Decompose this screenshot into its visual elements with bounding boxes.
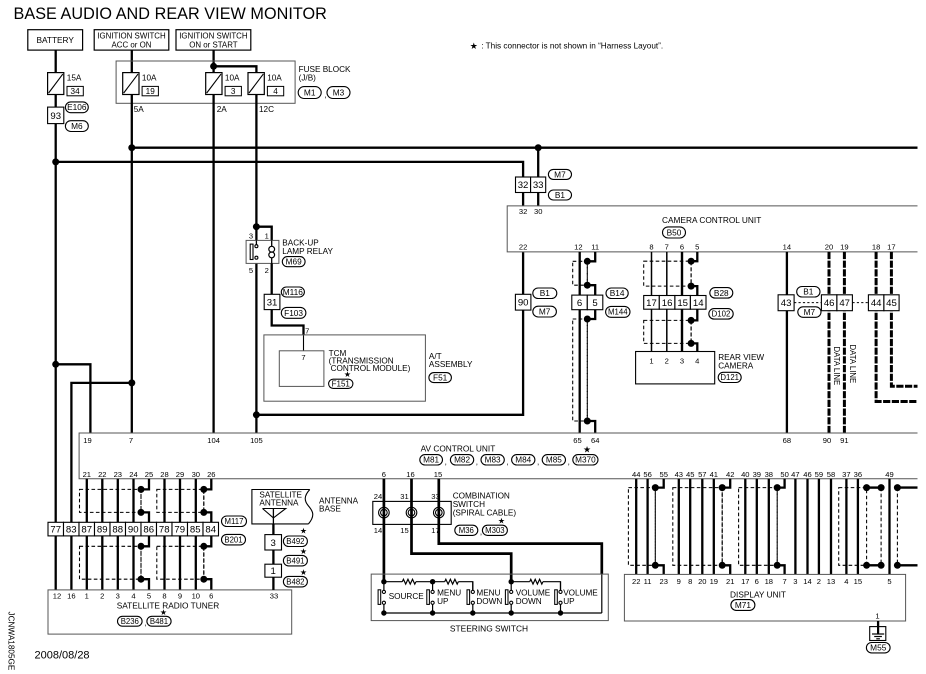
svg-text:M7: M7 — [804, 307, 816, 317]
spiral cable symbol 1 — [379, 507, 390, 518]
resistor 1 — [402, 579, 416, 584]
svg-text:LAMP RELAY: LAMP RELAY — [282, 247, 333, 256]
wire camera pin 5 to shield drain — [691, 252, 697, 261]
shield box 28-30 upper — [157, 489, 204, 512]
shield drain dashed 25 lower — [140, 546, 142, 579]
svg-text:7: 7 — [129, 436, 133, 445]
svg-text:65: 65 — [573, 436, 581, 445]
wire connector 31 to TCM pin 7 — [272, 310, 304, 335]
svg-text:6: 6 — [755, 577, 759, 586]
wire AV drain pin to shield at x=655.3 — [655, 479, 663, 488]
shield drain dashed 26 upper — [203, 489, 205, 512]
ground symbol M55 — [870, 627, 886, 641]
wire bus dot down to connector 33 — [537, 148, 539, 177]
wire drain to connector cell 5 — [587, 285, 595, 295]
svg-text:,: , — [476, 458, 478, 467]
svg-text:F51: F51 — [433, 373, 448, 383]
svg-text:DOWN: DOWN — [476, 597, 502, 606]
svg-text:7: 7 — [782, 577, 786, 586]
svg-text:3: 3 — [249, 232, 253, 241]
wire cell 14 to lower drain — [691, 309, 697, 320]
connector cells 46 47 — [821, 295, 837, 311]
svg-text:5A: 5A — [134, 105, 145, 114]
connector M7 oval at 90 — [533, 306, 557, 317]
svg-text:8: 8 — [688, 577, 692, 586]
satellite antenna box — [252, 490, 313, 524]
svg-text:STEERING SWITCH: STEERING SWITCH — [450, 623, 528, 633]
svg-text:B14: B14 — [610, 288, 625, 298]
svg-text:15: 15 — [434, 470, 442, 479]
svg-text:18: 18 — [765, 577, 773, 586]
data line wire camera pin 17 to right edge — [891, 252, 917, 386]
svg-text:M1: M1 — [304, 87, 316, 97]
svg-text:5: 5 — [249, 266, 253, 275]
svg-text:17: 17 — [646, 298, 657, 309]
svg-text:30: 30 — [192, 470, 200, 479]
connector cells 44 45 — [868, 295, 884, 311]
svg-text:20: 20 — [825, 243, 833, 252]
svg-text:33: 33 — [270, 592, 278, 601]
connector D102 oval — [709, 309, 733, 320]
rail volume down to volume up — [511, 581, 530, 583]
wire branch to relay coil pin 1 — [256, 227, 271, 241]
connector B1 oval at 90 — [533, 288, 557, 299]
svg-text:B236: B236 — [121, 617, 139, 626]
svg-text:DOWN: DOWN — [516, 597, 542, 606]
shield drain dashed 49 left — [880, 488, 882, 566]
svg-text:BATTERY: BATTERY — [36, 35, 74, 45]
shield box upper 8-6 — [644, 261, 691, 286]
svg-text:SATELLITE RADIO TUNER: SATELLITE RADIO TUNER — [117, 600, 220, 610]
svg-text:39: 39 — [753, 470, 761, 479]
TCM box — [279, 351, 324, 387]
svg-text:32: 32 — [518, 180, 529, 191]
AV control unit box — [79, 433, 917, 479]
svg-text:21: 21 — [83, 470, 91, 479]
shield drain dashed upper B28 — [690, 261, 692, 286]
svg-text:23: 23 — [114, 470, 122, 479]
svg-text:55: 55 — [659, 470, 667, 479]
svg-text:93: 93 — [50, 111, 61, 122]
fuse 15A battery — [48, 73, 64, 95]
svg-text:45: 45 — [686, 470, 694, 479]
wire relay pin 2 to connector 31 — [271, 263, 273, 294]
connector B482 oval — [283, 576, 307, 587]
svg-text:ANTENNA: ANTENNA — [259, 498, 299, 507]
svg-text:4: 4 — [844, 577, 848, 586]
svg-text:14: 14 — [693, 298, 704, 309]
shield box lower 12/11 — [573, 319, 588, 421]
wire ON/START to fuse 10A-3 — [212, 50, 214, 73]
A/T assembly box — [264, 335, 426, 401]
svg-text:M71: M71 — [735, 600, 752, 610]
svg-text:19: 19 — [840, 243, 848, 252]
svg-text:5: 5 — [147, 592, 151, 601]
wire cell 86 to lower drain — [141, 536, 149, 546]
svg-text:6: 6 — [382, 470, 386, 479]
svg-text:17: 17 — [741, 577, 749, 586]
svg-text:2A: 2A — [217, 105, 228, 114]
shield drain dashed lower — [586, 319, 588, 421]
wires AV to display unit straight — [635, 479, 637, 575]
svg-text:12C: 12C — [259, 105, 274, 114]
svg-text:FUSE BLOCK: FUSE BLOCK — [299, 65, 351, 74]
svg-text:,: , — [480, 528, 482, 537]
connector B492 oval — [283, 536, 307, 547]
svg-text:2: 2 — [817, 577, 821, 586]
svg-text:M117: M117 — [225, 517, 244, 526]
svg-text:4: 4 — [695, 357, 699, 366]
svg-text:JCNWA1805GE: JCNWA1805GE — [7, 612, 16, 671]
svg-text:10A: 10A — [225, 73, 240, 82]
junction dot battery branch to AV pin 19 — [52, 361, 59, 368]
connector F103 oval — [281, 307, 306, 318]
spiral cable symbol 2 — [406, 507, 417, 518]
svg-text:★: ★ — [300, 527, 307, 536]
wire AV pin 6 to spiral cable pin 24 — [383, 479, 386, 582]
wire battery down to junctions and satellite tuner pin 12 — [55, 124, 57, 590]
svg-text:9: 9 — [677, 577, 681, 586]
svg-text:3: 3 — [680, 357, 684, 366]
svg-text:14: 14 — [803, 577, 811, 586]
svg-text:15: 15 — [854, 577, 862, 586]
svg-text:M3: M3 — [333, 87, 345, 97]
connector B28 oval — [710, 288, 733, 299]
svg-text:46: 46 — [803, 470, 811, 479]
connector B14 oval — [606, 288, 628, 299]
svg-text:2008/08/28: 2008/08/28 — [35, 650, 90, 662]
connector cell 33 — [531, 177, 546, 193]
svg-text:6: 6 — [209, 592, 213, 601]
svg-text:88: 88 — [112, 525, 123, 536]
svg-text:43: 43 — [675, 470, 683, 479]
svg-text:6: 6 — [577, 298, 582, 309]
shield link wires top — [867, 486, 882, 488]
svg-text:B1: B1 — [555, 190, 566, 200]
junction dot ACC bus — [128, 144, 135, 151]
display unit box — [624, 574, 905, 621]
svg-text:,: , — [324, 90, 326, 100]
shield drain dashed 49 right — [896, 488, 898, 566]
svg-text:5: 5 — [887, 577, 891, 586]
wire cell 84 to lower drain — [204, 536, 212, 546]
svg-text:31: 31 — [267, 297, 278, 308]
wire connector 3 to connector 1 — [272, 550, 274, 564]
wires AV pins 21-24 to tuner pins 1-4 — [86, 479, 88, 590]
svg-text:3: 3 — [116, 592, 120, 601]
intermediate connector strip cells 77-84 — [48, 522, 64, 536]
connector M55 oval — [866, 643, 890, 653]
svg-text:,: , — [506, 458, 508, 467]
AV connector ovals M81-M370 — [420, 455, 443, 465]
svg-text:11: 11 — [644, 577, 652, 586]
svg-text:ACC or ON: ACC or ON — [112, 40, 152, 49]
svg-text:8: 8 — [649, 243, 653, 252]
svg-text:CAMERA: CAMERA — [718, 361, 754, 370]
shield box 43-41 — [673, 488, 722, 566]
data line wire camera pin 19 to AV pin 91 — [843, 252, 846, 433]
svg-text:105: 105 — [250, 436, 263, 445]
wire cell 5 to lower drain — [587, 310, 595, 319]
svg-text:12: 12 — [574, 243, 582, 252]
wire drain to cell 86 — [141, 512, 149, 522]
wire drain to connector cell 14 — [691, 286, 697, 295]
shield box 21-24 upper — [80, 489, 142, 512]
wire AV drain pin to shield at x=777.2 — [777, 479, 784, 488]
svg-text:3: 3 — [793, 577, 797, 586]
svg-text:32: 32 — [519, 207, 527, 216]
svg-text:B481: B481 — [150, 617, 168, 626]
svg-text:(J/B): (J/B) — [299, 74, 317, 83]
svg-text:29: 29 — [176, 470, 184, 479]
svg-text:64: 64 — [591, 436, 599, 445]
svg-text:BASE: BASE — [319, 504, 341, 513]
svg-text:M7: M7 — [554, 169, 566, 179]
wire battery fuse to connector 93 — [55, 95, 57, 108]
svg-text:90: 90 — [823, 436, 831, 445]
svg-text:M84: M84 — [515, 456, 531, 465]
svg-text:26: 26 — [207, 470, 215, 479]
wire AV pin 15 to spiral cable pin 33 — [439, 479, 602, 574]
connector B236 oval — [118, 616, 143, 626]
svg-text:M370: M370 — [575, 456, 596, 465]
wire camera pin 7 to rear camera pin 2 — [666, 252, 668, 352]
svg-text:M82: M82 — [454, 456, 470, 465]
connector M117 oval — [222, 516, 247, 527]
svg-text:22: 22 — [632, 577, 640, 586]
svg-text:19: 19 — [83, 436, 91, 445]
wire AV drain pin to shield at x=722.2 — [722, 479, 730, 488]
svg-text:104: 104 — [207, 436, 220, 445]
relay contact bar — [255, 240, 257, 244]
svg-text:13: 13 — [827, 577, 835, 586]
svg-text:M36: M36 — [459, 526, 474, 535]
svg-text:★: ★ — [160, 608, 167, 617]
svg-text:90: 90 — [518, 298, 529, 309]
svg-text:M303: M303 — [485, 526, 505, 535]
svg-text:33: 33 — [431, 492, 439, 501]
svg-text:19: 19 — [146, 87, 156, 96]
shield box lower 8-6 — [644, 320, 691, 343]
connector B1 oval at 43 — [797, 287, 820, 298]
svg-text:11: 11 — [591, 243, 599, 252]
svg-text:22: 22 — [98, 470, 106, 479]
svg-text:24: 24 — [374, 492, 382, 501]
shield box 44/56 — [628, 488, 655, 566]
svg-text:AV CONTROL UNIT: AV CONTROL UNIT — [421, 443, 496, 453]
svg-text:1: 1 — [271, 566, 276, 577]
svg-text:M7: M7 — [539, 307, 551, 317]
connector box 1 antenna — [265, 564, 282, 577]
svg-text:VOLUME: VOLUME — [516, 589, 551, 598]
connector M3 — [327, 87, 350, 99]
svg-text:,: , — [144, 618, 146, 627]
svg-text:M81: M81 — [423, 456, 439, 465]
svg-text:BASE AUDIO AND REAR VIEW MONIT: BASE AUDIO AND REAR VIEW MONITOR — [14, 5, 327, 23]
wire ACC 5A down to AV pin 7 — [131, 95, 133, 434]
junction dot fuse block feed — [210, 63, 217, 70]
connector E106 oval — [65, 102, 88, 113]
junction dot bus to connector 33 — [535, 144, 542, 151]
svg-text:,: , — [537, 458, 539, 467]
svg-text:VOLUME: VOLUME — [563, 589, 598, 598]
svg-text:58: 58 — [827, 470, 835, 479]
svg-text:M69: M69 — [286, 257, 303, 267]
connector F51 oval — [429, 373, 452, 383]
svg-text:UP: UP — [437, 597, 449, 606]
connector M6 oval — [65, 121, 88, 132]
svg-text:16: 16 — [67, 592, 75, 601]
svg-text:85: 85 — [190, 525, 201, 536]
svg-text:B1: B1 — [540, 288, 551, 298]
svg-text:1: 1 — [649, 357, 653, 366]
svg-text:B492: B492 — [286, 537, 304, 546]
resistor 3 — [530, 579, 543, 584]
svg-text:90: 90 — [128, 525, 139, 536]
svg-text:12: 12 — [53, 592, 61, 601]
svg-text:79: 79 — [174, 525, 185, 536]
svg-text:15A: 15A — [67, 73, 82, 82]
connector cell 32 — [516, 177, 531, 193]
shield drain dashed lower B28 — [690, 320, 692, 343]
svg-text:★: ★ — [300, 547, 307, 556]
svg-text:30: 30 — [534, 207, 542, 216]
svg-text:2: 2 — [100, 592, 104, 601]
ignition switch ON/START box — [176, 30, 251, 50]
wire camera pin 8 to rear camera pin 1 — [651, 252, 653, 352]
wire drain to tuner pin 5 — [141, 579, 149, 590]
wire AV pin 25 to shield drain — [141, 479, 149, 490]
svg-text:83: 83 — [66, 525, 77, 536]
steering switch box — [371, 574, 608, 621]
svg-text:2: 2 — [665, 357, 669, 366]
svg-text:3: 3 — [271, 538, 276, 549]
wire antenna to connector 3 — [272, 524, 274, 535]
svg-text:20: 20 — [698, 577, 706, 586]
back-up lamp relay box — [246, 240, 279, 263]
wire branch to satellite tuner pin 16 — [71, 383, 131, 590]
wire camera pin 11 to shield drain — [587, 252, 595, 261]
wire camera pin 12 to AV pin 65 — [579, 252, 581, 433]
svg-text:22: 22 — [519, 243, 527, 252]
svg-text:7: 7 — [301, 353, 305, 362]
svg-text:DISPLAY UNIT: DISPLAY UNIT — [730, 589, 786, 599]
svg-text:19: 19 — [710, 577, 718, 586]
dotted link 43 to 46 — [794, 302, 821, 304]
connector cell 5 — [587, 295, 603, 310]
wires AV pins 28-30 to tuner pins 8-10 — [163, 479, 165, 590]
svg-text:14: 14 — [374, 526, 382, 535]
svg-text:CONTROL MODULE): CONTROL MODULE) — [331, 364, 411, 373]
svg-text:★: ★ — [300, 568, 307, 577]
connector M144 oval — [606, 306, 630, 317]
svg-text:16: 16 — [406, 470, 414, 479]
svg-text:49: 49 — [885, 470, 893, 479]
wire branch to AV pin 19 — [56, 364, 91, 433]
svg-text:87: 87 — [81, 525, 92, 536]
resistor 2 — [445, 579, 459, 584]
svg-text:46: 46 — [824, 298, 835, 309]
switch VOLUME UP — [560, 582, 562, 591]
svg-text:MENU: MENU — [476, 589, 500, 598]
svg-text:B1: B1 — [803, 287, 814, 297]
svg-text:IGNITION SWITCH: IGNITION SWITCH — [97, 32, 166, 41]
svg-text:★: ★ — [498, 516, 505, 525]
shield box 37/36 — [839, 488, 867, 566]
data line wire camera pin 18 to right edge — [876, 252, 917, 402]
branch wire to fuse 10A-4 — [214, 66, 257, 72]
antenna symbol — [263, 509, 286, 518]
svg-text:M144: M144 — [608, 308, 628, 317]
wire AV pin 26 to shield drain — [204, 479, 212, 490]
junction dot ACC branch to tuner pin 16 — [128, 379, 135, 386]
connector B1 oval — [548, 190, 571, 200]
fuse 10A #3 — [206, 73, 222, 95]
fuse 10A #19 — [123, 73, 139, 95]
wire 2A down to AV pin 104 — [212, 95, 214, 434]
connector box 3 antenna — [265, 535, 282, 550]
svg-text:F103: F103 — [284, 308, 303, 318]
svg-text:ASSEMBLY: ASSEMBLY — [429, 360, 473, 369]
connector B481 oval — [147, 616, 171, 626]
dotted link 47 to 44 — [852, 302, 868, 304]
wire drain to AV pin 64 — [587, 421, 595, 433]
bottom rail — [384, 612, 602, 614]
svg-text:50: 50 — [780, 470, 788, 479]
connector M1 — [298, 87, 321, 99]
connector M71 oval — [731, 600, 755, 611]
svg-text:14: 14 — [783, 243, 791, 252]
svg-text:38: 38 — [765, 470, 773, 479]
svg-text:37: 37 — [842, 470, 850, 479]
switch VOLUME DOWN — [510, 582, 512, 591]
svg-text:15: 15 — [677, 298, 688, 309]
svg-text:SOURCE: SOURCE — [389, 592, 425, 601]
connector M7 oval at 43 — [798, 307, 821, 318]
svg-text:SWITCH: SWITCH — [453, 500, 485, 509]
svg-text:23: 23 — [659, 577, 667, 586]
shield link wires bottom — [867, 564, 882, 566]
svg-text:59: 59 — [815, 470, 823, 479]
svg-text:91: 91 — [840, 436, 848, 445]
connector box 31 — [264, 294, 280, 309]
svg-text:15: 15 — [400, 526, 408, 535]
svg-text:3: 3 — [231, 87, 236, 96]
bus battery wire to connector 32 — [56, 162, 523, 177]
shield box 28-30 lower — [157, 546, 204, 579]
svg-text:: This connector is not shown: : This connector is not shown in “Harnes… — [479, 42, 663, 51]
spiral cable symbol 3 — [434, 507, 445, 518]
wire drain to tuner pin 6 — [204, 579, 212, 590]
svg-text:CAMERA CONTROL UNIT: CAMERA CONTROL UNIT — [662, 215, 761, 225]
satellite radio tuner box — [48, 590, 292, 634]
svg-text:16: 16 — [662, 298, 673, 309]
connector M36 oval — [455, 525, 478, 535]
svg-text:44: 44 — [871, 298, 882, 309]
svg-text:34: 34 — [71, 87, 81, 96]
svg-text:B482: B482 — [286, 577, 304, 586]
svg-text:89: 89 — [97, 525, 108, 536]
wire drain to rear camera pin 4 — [691, 343, 697, 351]
fuse 10A #4 — [248, 73, 264, 95]
svg-text:10A: 10A — [142, 73, 157, 82]
svg-text:(SPIRAL CABLE): (SPIRAL CABLE) — [453, 509, 517, 518]
svg-text:41: 41 — [710, 470, 718, 479]
svg-text:6: 6 — [680, 243, 684, 252]
wire reverse signal to camera control pin 22 — [256, 252, 523, 415]
steering rail junction dots — [381, 579, 386, 584]
svg-text:7: 7 — [305, 326, 309, 335]
